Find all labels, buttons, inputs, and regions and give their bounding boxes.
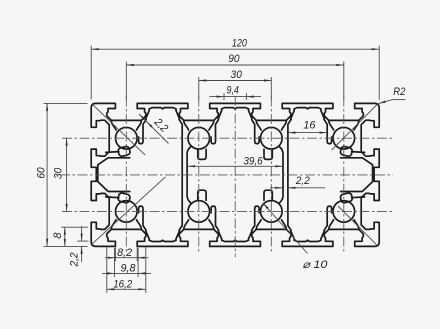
dim 60 bbox=[46, 103, 48, 246]
channel 235 bottom left hook bbox=[211, 206, 219, 230]
diag through circle 127t bbox=[92, 104, 145, 155]
slot axis 1 bbox=[198, 97, 200, 254]
I-wall column 271 (opens left) bbox=[279, 146, 283, 203]
slot axis 3 bbox=[343, 97, 345, 254]
channel 163 top, web bbox=[149, 108, 176, 109]
svg-text:16: 16 bbox=[303, 120, 316, 132]
svg-text:30: 30 bbox=[231, 69, 243, 81]
slot axis 2 bbox=[270, 97, 272, 254]
dim 120 bbox=[91, 48, 379, 50]
leader 2,2 top bbox=[139, 114, 169, 144]
dim 90 bbox=[126, 64, 343, 66]
core hole D10 c3b bbox=[261, 201, 283, 223]
left face mid flange bbox=[106, 151, 119, 154]
ext lines left bbox=[44, 102, 88, 104]
channel 307 bottom, web bbox=[294, 240, 321, 241]
core hole D10 c4t bbox=[333, 127, 355, 149]
dim 16,2 bbox=[107, 288, 146, 290]
channel 235 top left hook bbox=[211, 120, 219, 144]
mid axis bbox=[60, 174, 393, 176]
dim 8,2 bbox=[105, 257, 149, 259]
core hole D10 c3t bbox=[261, 127, 283, 149]
svg-text:30: 30 bbox=[53, 167, 65, 179]
svg-text:2,2: 2,2 bbox=[295, 175, 310, 187]
diag through circle 343b bbox=[338, 206, 377, 245]
svg-text:9,8: 9,8 bbox=[121, 263, 137, 275]
core hole D10 c1t bbox=[116, 127, 138, 149]
channel 235 top right hook bbox=[252, 120, 260, 144]
core hole D10 c1b bbox=[116, 201, 138, 223]
dim 16 bbox=[288, 132, 327, 134]
svg-text:90: 90 bbox=[228, 53, 240, 65]
channel 163 bottom, web bbox=[149, 240, 176, 241]
core hole D10 c4b bbox=[333, 201, 355, 223]
center axis vertical bbox=[234, 96, 236, 257]
dim 2,2 left bbox=[81, 226, 83, 241]
profile outer contour with T-slots bbox=[91, 103, 379, 246]
diag through circle 343t bbox=[332, 104, 379, 151]
row axis bottom bbox=[62, 210, 392, 212]
dim 39,6 bbox=[188, 165, 283, 167]
svg-text:60: 60 bbox=[36, 167, 48, 179]
channel 235 bottom right hook bbox=[252, 206, 260, 230]
svg-text:120: 120 bbox=[232, 38, 248, 50]
svg-text:8,2: 8,2 bbox=[117, 247, 132, 259]
dim 9,4 bbox=[210, 96, 262, 98]
leader R2 bbox=[393, 99, 406, 101]
svg-text:⌀ 10: ⌀ 10 bbox=[302, 259, 328, 271]
svg-text:R2: R2 bbox=[393, 86, 405, 98]
row axis top bbox=[62, 137, 392, 139]
channel 307 bottom right wall hook bbox=[324, 206, 332, 230]
svg-text:16,2: 16,2 bbox=[113, 278, 132, 290]
dim 2,2 right bbox=[270, 187, 283, 189]
svg-text:39,6: 39,6 bbox=[244, 155, 264, 167]
dim 30 top bbox=[199, 80, 271, 82]
ext lines bottom bbox=[114, 247, 116, 261]
channel 307 full left wall bbox=[288, 120, 291, 231]
slot axis 0 bbox=[125, 97, 127, 254]
dim 30 left bbox=[66, 138, 68, 211]
ext lines top bbox=[90, 46, 92, 100]
leader D10 bbox=[263, 203, 308, 254]
diag through circle 127b bbox=[92, 177, 166, 244]
channel 307 top right wall hook bbox=[324, 120, 332, 144]
screw funnels bbox=[111, 121, 116, 130]
channel 163 top left wall hook bbox=[139, 120, 147, 144]
right face mid flange bbox=[352, 151, 365, 154]
dim 9,8 bbox=[102, 272, 151, 274]
channel 163 full right wall bbox=[179, 120, 182, 231]
I-wall column 199 (opens right) bbox=[187, 146, 191, 203]
dim 8 bbox=[64, 227, 66, 246]
channel 235 bottom, web bbox=[222, 240, 249, 241]
svg-text:9,4: 9,4 bbox=[227, 85, 239, 97]
channel 163 bottom left wall hook bbox=[139, 206, 147, 230]
svg-text:2,2: 2,2 bbox=[69, 253, 81, 268]
channel 307 top, web bbox=[294, 108, 321, 109]
core hole D10 c2b bbox=[188, 201, 210, 223]
svg-text:8: 8 bbox=[52, 232, 64, 239]
core hole D10 c2t bbox=[188, 127, 210, 149]
channel 235 top, web bbox=[222, 108, 249, 109]
